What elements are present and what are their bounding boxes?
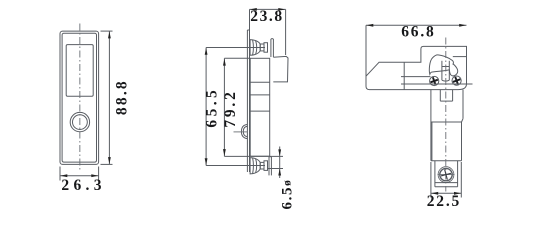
svg-text:23.8: 23.8 bbox=[250, 8, 284, 25]
svg-text:22.5: 22.5 bbox=[427, 193, 461, 210]
svg-text:65.5: 65.5 bbox=[204, 87, 221, 128]
svg-text:66.8: 66.8 bbox=[401, 24, 435, 41]
svg-text:79.2: 79.2 bbox=[222, 89, 239, 127]
svg-text:6.5ø: 6.5ø bbox=[280, 179, 296, 210]
svg-text:26.3: 26.3 bbox=[61, 177, 105, 194]
svg-text:88.8: 88.8 bbox=[113, 79, 130, 115]
